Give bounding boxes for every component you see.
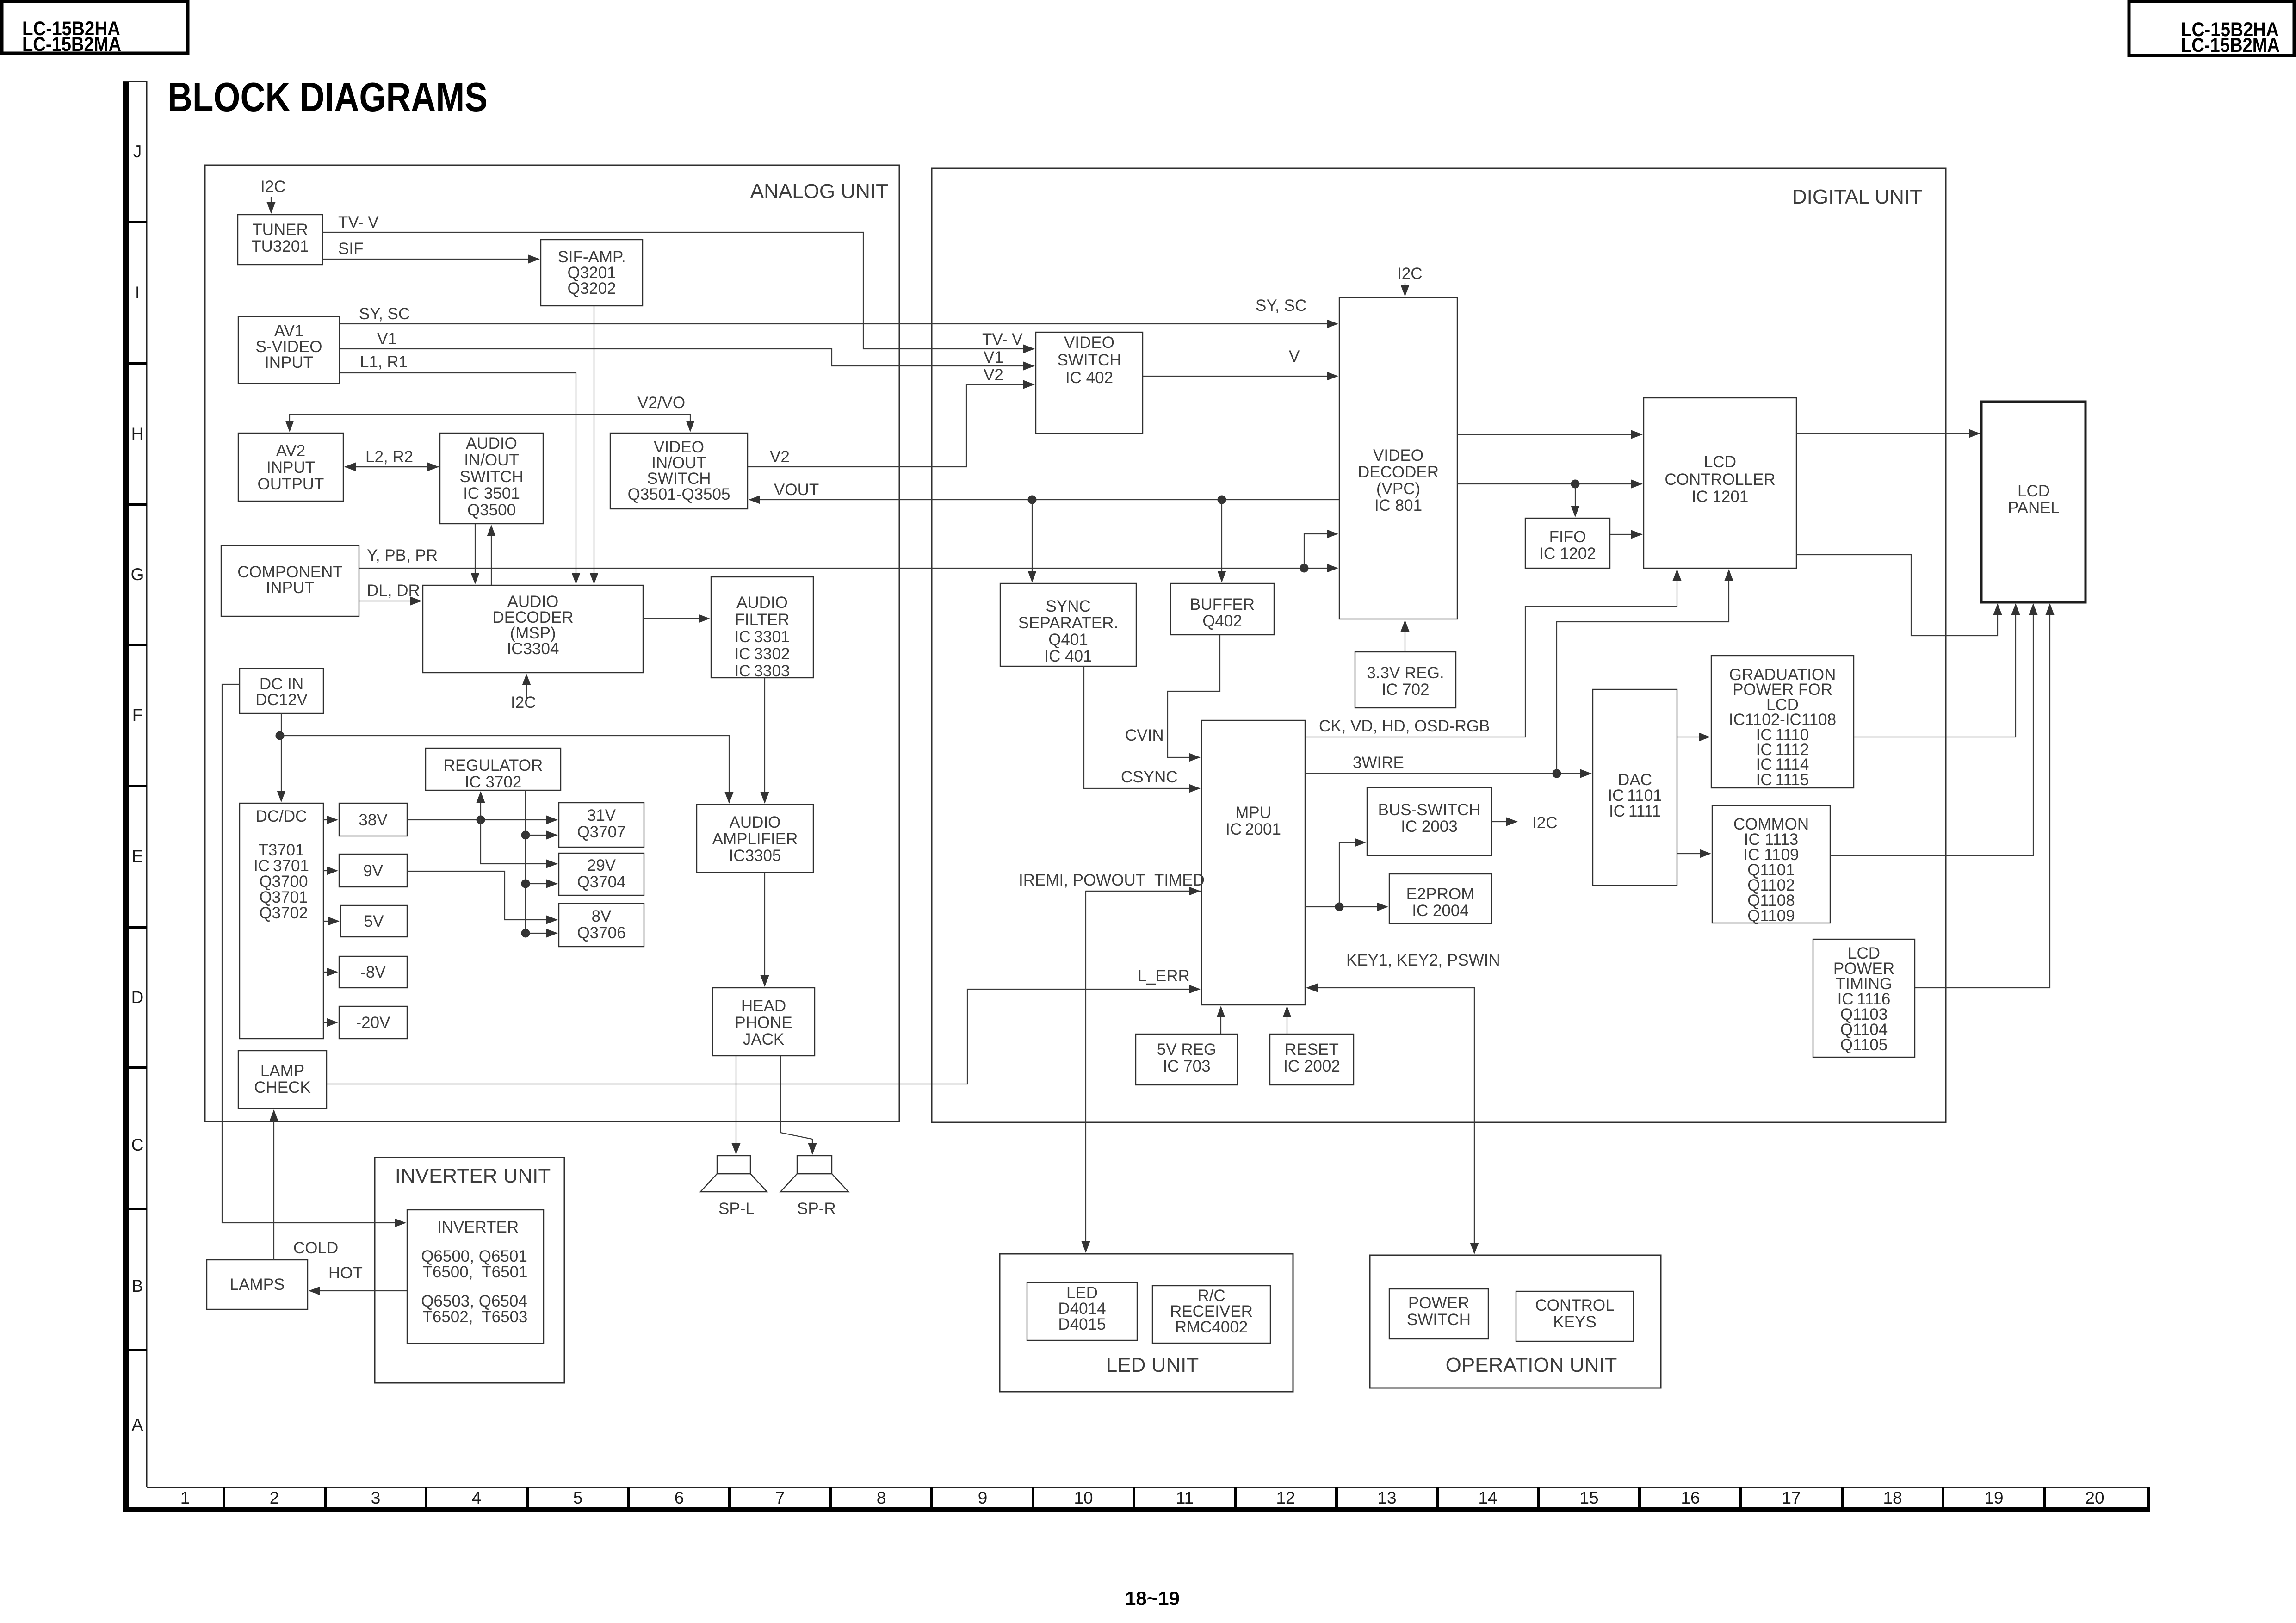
wire DC/DC to -8V [323, 972, 337, 973]
svg-text:SY, SC: SY, SC [1256, 297, 1306, 315]
svg-text:SWITCH: SWITCH [1407, 1311, 1471, 1329]
svg-text:38V: 38V [359, 811, 388, 829]
5V regulator IC 703 [1136, 1034, 1238, 1085]
svg-text:IC 3301: IC 3301 [735, 628, 790, 646]
svg-text:CONTROL: CONTROL [1535, 1296, 1614, 1314]
svg-text:HEAD: HEAD [741, 997, 786, 1015]
ruler bottom row top line [147, 1487, 2148, 1488]
31V output Q3707 [559, 803, 644, 847]
wire audio in/out switch to audio decoder [475, 524, 476, 583]
svg-text:TV- V: TV- V [982, 330, 1023, 348]
wire 38V branch to 29V box [481, 820, 557, 864]
svg-text:Q1109: Q1109 [1747, 907, 1795, 925]
svg-text:Y, PB, PR: Y, PB, PR [367, 546, 438, 564]
svg-text:CHECK: CHECK [254, 1078, 311, 1096]
audio decoder MSP IC3304 [423, 585, 643, 673]
svg-text:OPERATION UNIT: OPERATION UNIT [1446, 1354, 1617, 1376]
wire DC in down to DC/DC [281, 713, 282, 801]
svg-text:IC 2002: IC 2002 [1283, 1057, 1340, 1075]
wire graduation power to LCD panel [1854, 604, 2016, 737]
svg-text:IC 3501: IC 3501 [463, 484, 520, 502]
FIFO IC 1202 [1525, 518, 1610, 568]
svg-text:1: 1 [180, 1488, 190, 1507]
svg-text:AUDIO: AUDIO [736, 594, 788, 612]
svg-text:L_ERR: L_ERR [1138, 967, 1190, 985]
wire lamp check L_ERR to MPU [327, 989, 1200, 1084]
ruler row tick 2 [123, 362, 147, 365]
audio filter IC 3301 IC 3302 IC 3303 [711, 577, 813, 680]
wire DC input to inverter [222, 684, 405, 1223]
svg-text:IC 1111: IC 1111 [1609, 802, 1661, 820]
ruler row tick 8 [123, 1208, 147, 1210]
wire LCD controller lower output to LCD panel [1796, 555, 1998, 636]
svg-text:B: B [132, 1276, 143, 1295]
wire CVIN buffer to MPU [1168, 635, 1220, 757]
svg-text:16: 16 [1681, 1488, 1700, 1507]
svg-text:VIDEO: VIDEO [1373, 446, 1423, 465]
junction 3WIRE to LCD controller [1553, 769, 1561, 778]
svg-text:V1: V1 [984, 348, 1003, 366]
svg-text:13: 13 [1377, 1488, 1396, 1507]
ruler column tick 17 [1841, 1487, 1844, 1507]
wire branch into FIFO [1575, 484, 1576, 516]
svg-text:INVERTER UNIT: INVERTER UNIT [395, 1165, 551, 1187]
wire SY SC from AV1 to video decoder [340, 323, 1337, 324]
wire V2/VO to AV2 input [290, 415, 690, 431]
buffer Q402 [1170, 583, 1274, 635]
LCD power timing IC 1116 Q1103 Q1104 Q1105 [1813, 939, 1915, 1057]
svg-text:FILTER: FILTER [735, 611, 790, 629]
svg-text:29V: 29V [587, 856, 616, 874]
svg-text:IC 2004: IC 2004 [1412, 902, 1469, 920]
wire reset to MPU [1287, 1007, 1287, 1034]
wire regulator branch to 31V box [526, 835, 557, 836]
speaker SP-R [780, 1156, 848, 1192]
wire I2C into audio decoder [526, 675, 527, 701]
svg-text:IC 1115: IC 1115 [1756, 771, 1809, 789]
reset IC 2002 [1270, 1034, 1354, 1085]
power switch [1389, 1289, 1488, 1339]
wire keys operation unit to MPU [1307, 988, 1474, 1253]
regulator IC 3702 [426, 748, 561, 791]
svg-text:4: 4 [472, 1488, 482, 1507]
svg-text:D: D [131, 988, 144, 1007]
analog unit enclosure [205, 165, 899, 1121]
wire TV-V tuner to video switch [322, 232, 1034, 349]
ruler column tick 2 [324, 1487, 327, 1507]
wire audio filter to audio amplifier [764, 678, 765, 803]
38V supply [339, 803, 407, 836]
svg-text:DECODER: DECODER [1358, 463, 1439, 481]
svg-text:DL, DR: DL, DR [367, 582, 420, 600]
svg-text:FIFO: FIFO [1549, 528, 1586, 546]
ruler column tick 4 [526, 1487, 529, 1507]
svg-text:C: C [131, 1135, 144, 1154]
ruler column tick 3 [425, 1487, 427, 1507]
svg-text:L2, R2: L2, R2 [365, 448, 413, 466]
svg-text:AV2: AV2 [276, 442, 306, 460]
svg-text:HOT: HOT [328, 1264, 363, 1282]
wire LCD controller to LCD panel [1796, 433, 1980, 434]
wire 3WIRE MPU to DAC [1305, 773, 1591, 774]
svg-text:DC12V: DC12V [255, 691, 308, 709]
svg-text:IC 3702: IC 3702 [465, 773, 522, 791]
svg-text:IC 401: IC 401 [1044, 647, 1092, 665]
svg-text:BUS-SWITCH: BUS-SWITCH [1378, 801, 1481, 819]
svg-text:COLD: COLD [293, 1239, 338, 1257]
SIF amplifier Q3201 Q3202 [541, 240, 643, 306]
common IC 1113 IC 1109 Q1101 Q1102 Q1108 Q1109 [1712, 805, 1830, 925]
svg-text:LCD: LCD [2018, 482, 2050, 500]
svg-text:AUDIO: AUDIO [466, 434, 517, 452]
video switch IC 402 [1036, 332, 1143, 434]
svg-text:L1, R1: L1, R1 [360, 353, 408, 371]
svg-text:BLOCK DIAGRAMS: BLOCK DIAGRAMS [167, 74, 488, 120]
svg-text:-8V: -8V [360, 963, 386, 981]
wire head phone jack to SP-L [736, 1056, 736, 1154]
svg-text:IREMI, POWOUT TIMED: IREMI, POWOUT TIMED [1019, 871, 1205, 889]
wire MPU to E2PROM [1305, 906, 1387, 907]
lamps [207, 1260, 308, 1309]
wire regulator distribution vertical [525, 790, 526, 933]
svg-text:19: 19 [1984, 1488, 2003, 1507]
bus-switch IC 2003 [1367, 787, 1491, 855]
MPU IC 2001 [1201, 720, 1305, 1005]
ruler column tick 10 [1133, 1487, 1135, 1507]
wire keys arrow into operation unit [1474, 988, 1475, 1253]
svg-text:SEPARATER.: SEPARATER. [1018, 614, 1119, 632]
svg-text:LC-15B2MA: LC-15B2MA [2181, 34, 2280, 56]
wire I2C into video decoder [1405, 283, 1405, 296]
wire CK VD HD OSD-RGB MPU to LCD controller [1305, 570, 1677, 737]
svg-text:3WIRE: 3WIRE [1353, 754, 1404, 772]
junction regulator to 8V [521, 929, 530, 938]
wire video decoder to LCD controller upper [1457, 434, 1642, 435]
wire cold lamps to lamp check [273, 1110, 274, 1260]
svg-text:(VPC): (VPC) [1376, 480, 1420, 498]
ruler column tick 9 [1032, 1487, 1034, 1507]
digital unit enclosure [932, 168, 1946, 1122]
tuner TU3201 [238, 215, 322, 265]
svg-text:8V: 8V [592, 907, 612, 925]
wire DC/DC to 5V [323, 921, 339, 922]
svg-text:SYNC: SYNC [1046, 597, 1090, 615]
svg-text:Q3501-Q3505: Q3501-Q3505 [628, 485, 730, 503]
junction VOUT to sync separater [1028, 496, 1037, 504]
svg-text:12: 12 [1276, 1488, 1295, 1507]
svg-text:I2C: I2C [260, 178, 285, 196]
lamp check [238, 1051, 327, 1109]
-20V supply [339, 1006, 407, 1039]
svg-text:17: 17 [1782, 1488, 1801, 1507]
svg-text:IC 2003: IC 2003 [1401, 818, 1458, 836]
5V supply [340, 905, 407, 937]
wire DC12V rail to audio amplifier [280, 736, 729, 803]
audio in/out switch IC 3501 Q3500 [440, 433, 543, 524]
svg-text:IC 1202: IC 1202 [1539, 545, 1596, 563]
wire VOUT video decoder to video in/out switch [749, 499, 1339, 500]
junction regulator to 29V [521, 880, 530, 888]
junction VOUT to buffer [1218, 496, 1226, 504]
wire DL DR component input to audio decoder [359, 601, 421, 601]
ruler column tick 12 [1335, 1487, 1338, 1507]
svg-text:IC 402: IC 402 [1065, 369, 1113, 387]
svg-text:V2: V2 [770, 448, 790, 466]
svg-text:JACK: JACK [743, 1030, 784, 1048]
-8V supply [339, 956, 407, 988]
svg-text:KEY1, KEY2, PSWIN: KEY1, KEY2, PSWIN [1346, 951, 1500, 969]
wire audio decoder to audio in/out switch [491, 526, 492, 585]
wire LCD power timing to LCD panel [1915, 604, 2050, 988]
svg-text:I2C: I2C [1532, 814, 1557, 832]
wire DAC to graduation power [1677, 737, 1709, 737]
ruler column tick 8 [930, 1487, 933, 1507]
wire L2 R2 AV2 to audio in/out switch [345, 466, 438, 467]
wire audio amplifier to head phone jack [764, 873, 765, 986]
svg-text:SWITCH: SWITCH [459, 468, 523, 486]
svg-text:15: 15 [1579, 1488, 1598, 1507]
wire CSYNC sync separater to MPU [1084, 666, 1200, 788]
wire IREMI POWOUT TIMED MPU to LED unit [1086, 891, 1201, 1252]
wire L2 R2 arrow into AV2 [345, 466, 440, 467]
svg-text:CSYNC: CSYNC [1121, 768, 1178, 786]
junction regulator to 31V [521, 831, 530, 840]
svg-text:G: G [131, 565, 144, 584]
svg-text:VIDEO: VIDEO [1064, 334, 1114, 352]
svg-text:RMC4002: RMC4002 [1175, 1318, 1248, 1336]
svg-text:PANEL: PANEL [2008, 499, 2060, 517]
ruler column tick 16 [1739, 1487, 1742, 1507]
svg-text:9: 9 [978, 1488, 988, 1507]
wire DAC to common [1677, 853, 1710, 854]
svg-text:TU3201: TU3201 [251, 237, 309, 255]
svg-text:INPUT: INPUT [265, 353, 313, 372]
svg-text:TV- V: TV- V [338, 213, 379, 231]
svg-text:CK, VD, HD, OSD-RGB: CK, VD, HD, OSD-RGB [1319, 717, 1490, 735]
ruler row tick 3 [123, 503, 147, 506]
LED indicator D4014 D4015 [1027, 1282, 1137, 1340]
svg-text:IC 702: IC 702 [1381, 681, 1429, 699]
svg-text:VOUT: VOUT [774, 481, 819, 499]
svg-text:V2: V2 [984, 366, 1003, 384]
wire bus-switch I2C output [1491, 821, 1517, 822]
junction Y PB PR branch [1300, 564, 1309, 573]
wire DC/DC to 38V [323, 819, 337, 820]
svg-text:18: 18 [1883, 1488, 1902, 1507]
junction 38V to regulator [477, 816, 485, 824]
svg-text:SWITCH: SWITCH [1057, 351, 1121, 369]
svg-text:3: 3 [371, 1488, 381, 1507]
svg-text:AUDIO: AUDIO [730, 813, 781, 831]
header box top-left model numbers [2, 1, 188, 56]
svg-text:J: J [133, 142, 142, 161]
svg-text:OUTPUT: OUTPUT [258, 475, 324, 493]
svg-text:LC-15B2MA: LC-15B2MA [22, 33, 121, 56]
graduation power for LCD IC1102-IC1108 IC 1110 IC 1112 IC 1114 IC 1115 [1711, 656, 1854, 789]
video decoder VPC IC 801 [1339, 297, 1457, 619]
svg-text:IC 1201: IC 1201 [1692, 488, 1749, 506]
svg-text:TUNER: TUNER [252, 221, 308, 239]
wire V1 AV1 to video switch [340, 349, 1034, 366]
ruler row tick 4 [123, 644, 147, 646]
svg-text:Q1105: Q1105 [1840, 1036, 1888, 1054]
svg-text:E2PROM: E2PROM [1406, 885, 1475, 903]
wire video decoder to LCD controller lower [1457, 483, 1642, 484]
svg-text:T6502, T6503: T6502, T6503 [422, 1308, 527, 1326]
ruler column tick 14 [1537, 1487, 1540, 1507]
svg-text:V1: V1 [377, 330, 397, 348]
junction E2PROM bus-switch [1335, 903, 1344, 911]
svg-text:Q3707: Q3707 [577, 823, 625, 841]
wire VOUT branch into sync separater [1032, 500, 1033, 582]
wire 38V output to 31V box [407, 819, 557, 820]
svg-text:SIF: SIF [338, 240, 363, 258]
ruler column tick 18 [1942, 1487, 1944, 1507]
speaker SP-L [700, 1156, 767, 1192]
wire V2/VO into video in/out switch [290, 415, 690, 431]
svg-text:SP-L: SP-L [718, 1200, 755, 1218]
svg-text:LED UNIT: LED UNIT [1106, 1354, 1199, 1376]
ruler top cap [123, 81, 147, 82]
svg-text:IC 3303: IC 3303 [735, 662, 790, 680]
svg-text:3.3V REG.: 3.3V REG. [1367, 664, 1444, 682]
wire head phone jack to SP-R [780, 1056, 812, 1154]
svg-text:IC3304: IC3304 [507, 640, 559, 658]
svg-text:10: 10 [1074, 1488, 1093, 1507]
svg-text:IC 2001: IC 2001 [1225, 820, 1281, 838]
LCD panel [1981, 402, 2086, 602]
svg-text:Q3702: Q3702 [259, 904, 308, 922]
video in/out switch Q3501-Q3505 [610, 433, 748, 509]
svg-text:KEYS: KEYS [1553, 1313, 1596, 1331]
9V supply [339, 854, 407, 887]
svg-text:18~19: 18~19 [1125, 1587, 1180, 1609]
E2PROM IC 2004 [1389, 874, 1491, 923]
ruler column tick 6 [728, 1487, 731, 1507]
wire 3WIRE branch to LCD controller [1557, 570, 1729, 774]
svg-text:8: 8 [877, 1488, 886, 1507]
svg-text:INPUT: INPUT [266, 458, 315, 477]
svg-text:CONTROLLER: CONTROLLER [1665, 471, 1775, 489]
ruler thick left bar [123, 81, 129, 1512]
svg-text:T6500, T6501: T6500, T6501 [422, 1263, 527, 1281]
svg-text:RESET: RESET [1285, 1041, 1339, 1059]
svg-text:IN/OUT: IN/OUT [464, 451, 519, 469]
svg-text:2: 2 [270, 1488, 279, 1507]
svg-text:5: 5 [573, 1488, 583, 1507]
wire 38V branch up to regulator [480, 792, 481, 820]
svg-text:Q3500: Q3500 [467, 501, 516, 519]
ruler column tick 5 [627, 1487, 630, 1507]
sync separater Q401 IC 401 [1000, 583, 1136, 666]
ruler column tick 13 [1436, 1487, 1439, 1507]
wire Y PB PR branch upper into video decoder [1304, 534, 1337, 568]
svg-text:V: V [1289, 347, 1300, 365]
svg-text:SP-R: SP-R [797, 1200, 836, 1218]
svg-text:LCD: LCD [1704, 453, 1736, 471]
DC in DC12V [240, 669, 323, 713]
DAC IC 1101 IC 1111 [1593, 689, 1677, 886]
svg-text:AMPLIFIER: AMPLIFIER [712, 830, 798, 848]
ruler column tick 7 [829, 1487, 832, 1507]
junction to FIFO [1571, 480, 1580, 489]
svg-text:POWER: POWER [1408, 1294, 1469, 1312]
wire SIF-amp output to audio decoder [594, 306, 594, 583]
29V output Q3704 [559, 853, 644, 895]
wire 9V output to 8V box [407, 871, 557, 920]
audio amplifier IC3305 [697, 805, 813, 873]
svg-text:LAMP: LAMP [260, 1062, 304, 1080]
svg-text:5V: 5V [364, 912, 384, 930]
svg-text:LAMPS: LAMPS [230, 1276, 285, 1294]
ruler row tick 7 [123, 1066, 147, 1069]
svg-text:I2C: I2C [511, 694, 536, 712]
svg-text:20: 20 [2085, 1488, 2104, 1507]
AV2 input output [238, 433, 343, 501]
wire 3.3V regulator to video decoder [1405, 621, 1405, 652]
component input [221, 545, 359, 616]
wire SIF tuner to SIF-amp [322, 259, 539, 260]
svg-text:-20V: -20V [356, 1014, 391, 1032]
svg-text:Q3706: Q3706 [577, 924, 625, 942]
8V output Q3706 [559, 904, 644, 947]
wire VOUT branch into buffer [1221, 500, 1222, 582]
wire L1 R1 AV1 to audio decoder [340, 373, 576, 583]
wire DC/DC to 9V [323, 870, 337, 871]
wire hot inverter to lamps [309, 1290, 407, 1291]
inverter Q6500 Q6501 T6500 T6501 Q6503 Q6504 T6502 T6503 [407, 1210, 544, 1344]
LCD controller IC 1201 [1644, 398, 1796, 568]
svg-text:BUFFER: BUFFER [1190, 595, 1255, 613]
svg-text:5V REG: 5V REG [1157, 1041, 1216, 1059]
control keys [1516, 1291, 1634, 1341]
svg-text:H: H [131, 424, 144, 443]
svg-text:Q401: Q401 [1048, 631, 1088, 649]
wire regulator branch to 29V box [526, 883, 557, 884]
svg-text:I2C: I2C [1397, 265, 1422, 283]
svg-text:IC 703: IC 703 [1163, 1057, 1210, 1075]
svg-text:6: 6 [675, 1488, 684, 1507]
svg-text:E: E [132, 847, 143, 866]
wire regulator branch to 8V box [526, 933, 557, 934]
ruler column tick 11 [1234, 1487, 1237, 1507]
ruler bottom thick line [123, 1507, 2150, 1512]
inverter unit enclosure [375, 1158, 564, 1383]
svg-text:A: A [132, 1415, 143, 1434]
svg-text:CVIN: CVIN [1125, 726, 1164, 744]
svg-text:Q3202: Q3202 [567, 279, 616, 297]
svg-text:ANALOG UNIT: ANALOG UNIT [750, 180, 888, 203]
svg-text:Q402: Q402 [1202, 612, 1242, 630]
LED unit enclosure [1000, 1254, 1293, 1392]
svg-text:31V: 31V [587, 806, 616, 824]
svg-text:7: 7 [775, 1488, 785, 1507]
svg-text:Q3704: Q3704 [577, 873, 625, 891]
wire I2C into tuner [271, 197, 272, 213]
svg-text:11: 11 [1176, 1488, 1194, 1507]
svg-text:V2/VO: V2/VO [637, 394, 685, 412]
ruler left thin line [146, 81, 148, 1487]
svg-text:DIGITAL UNIT: DIGITAL UNIT [1792, 186, 1922, 208]
svg-text:IC 801: IC 801 [1374, 496, 1422, 514]
svg-text:INVERTER: INVERTER [437, 1218, 519, 1236]
svg-text:MPU: MPU [1235, 804, 1271, 822]
svg-text:INPUT: INPUT [266, 579, 315, 597]
svg-text:IC 3302: IC 3302 [735, 645, 790, 663]
svg-text:DC/DC: DC/DC [256, 807, 307, 825]
wire audio decoder to audio filter [643, 618, 709, 619]
svg-text:D4015: D4015 [1058, 1315, 1106, 1333]
